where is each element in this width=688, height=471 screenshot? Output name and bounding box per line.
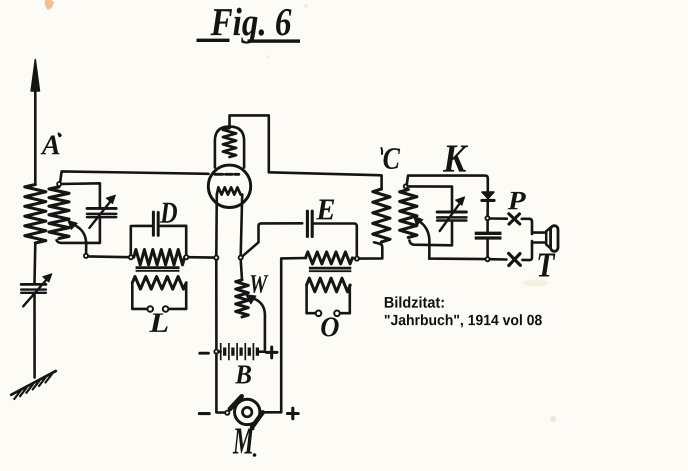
label M: [233, 429, 257, 457]
wire L to filament junction: [188, 256, 214, 259]
wire filament right to W: [241, 260, 242, 280]
blocking capacitor: [475, 233, 502, 238]
wire to capacitor D left: [131, 226, 152, 255]
terminal O right: [334, 311, 340, 317]
tube bulb circle: [208, 165, 250, 207]
wire cap to ground: [33, 295, 36, 378]
wire E right: [314, 224, 357, 257]
tube anode zigzag: [223, 128, 236, 157]
node capacitor bottom: [486, 257, 490, 261]
transformer O secondary: [307, 278, 351, 292]
motor brush left: [230, 396, 242, 409]
node diode bottom: [485, 216, 489, 220]
coil antenna secondary: [49, 187, 69, 239]
paper smudge orange top-left: [45, 0, 54, 10]
diode detector: [482, 192, 494, 216]
tube grid dashes: [215, 173, 239, 176]
label P: [508, 192, 526, 209]
title Fig. 6: [197, 8, 301, 44]
wire detector bottom line: [429, 257, 485, 259]
label K: [443, 146, 468, 172]
motor plus sign: [288, 408, 299, 419]
wire motor right: [263, 258, 306, 412]
wire P line: [490, 219, 532, 232]
label E: [316, 200, 334, 220]
tap arrow on secondary coil: [68, 221, 86, 254]
wire battery left terminal: [219, 350, 221, 353]
wire anode top: [230, 115, 382, 189]
telephone T earpad: [551, 226, 558, 252]
node secondary top: [57, 182, 61, 186]
switch X P: [509, 214, 520, 224]
coil K: [400, 190, 417, 238]
transformer O primary: [306, 252, 353, 264]
tube U1 envelope capsule: [215, 127, 244, 168]
wire coil top to variable capacitor top: [61, 183, 100, 207]
antenna A: [31, 60, 39, 185]
battery B cells: [221, 343, 258, 360]
wire variable capacitor bottom to K bottom: [409, 222, 452, 246]
label C: [382, 148, 401, 169]
wire battery left: [215, 260, 218, 349]
filament leg left: [215, 195, 218, 256]
variable capacitor (detector tuning): [437, 197, 466, 231]
terminal L right: [163, 306, 169, 312]
wire junction to C coil bottom: [359, 242, 382, 258]
telephone T stem: [532, 231, 546, 245]
node battery minus: [214, 350, 218, 354]
transformer L secondary: [132, 277, 186, 290]
motor M outer: [235, 399, 260, 424]
battery plus sign: [266, 347, 277, 358]
capacitor D: [153, 212, 158, 235]
wire variable capacitor bottom to coil bottom: [57, 218, 100, 243]
transformer L core: [136, 268, 180, 271]
ground: [11, 371, 56, 399]
coil C: [373, 189, 390, 242]
node filament left: [214, 256, 218, 260]
label B: [235, 366, 251, 384]
battery minus sign: [200, 352, 209, 355]
tap arrow on K coil: [414, 216, 430, 258]
wire battery plus to wiper: [257, 350, 265, 353]
wire capacitor D right: [160, 226, 186, 255]
switch X bottom: [509, 253, 521, 265]
label L: [149, 314, 168, 332]
wire L secondary legs: [132, 283, 186, 309]
wire O secondary legs: [307, 285, 350, 313]
wire K top to variable capacitor: [408, 186, 452, 210]
wire capacitor verticals: [486, 220, 489, 257]
wiper arrow W: [246, 295, 265, 350]
transformer L primary: [134, 250, 185, 265]
node L left: [129, 255, 133, 259]
capacitor E: [307, 211, 312, 236]
node tap junction: [84, 254, 88, 258]
wire primary bottom to cap: [33, 243, 36, 283]
telephone T neck: [546, 228, 550, 249]
label T: [538, 254, 555, 277]
variable capacitor (antenna series): [21, 274, 52, 307]
wire grid (coil top to tube): [60, 171, 208, 182]
label D: [160, 203, 177, 223]
transformer O core: [309, 268, 351, 271]
node filament right: [239, 256, 243, 260]
wire battery minus down to motor: [216, 354, 225, 413]
terminal O left: [316, 311, 322, 317]
wire bottom line to T: [490, 245, 532, 261]
filament leg right: [241, 195, 243, 256]
node L right: [184, 255, 188, 259]
motor terminal circle: [225, 411, 229, 415]
motor M inner: [243, 407, 252, 416]
rheostat W: [236, 280, 249, 317]
wire O primary right lead: [352, 256, 355, 259]
citation text: [385, 296, 542, 327]
wire tap junction to L: [88, 255, 129, 258]
label O: [321, 317, 339, 336]
variable capacitor (secondary tuning): [87, 195, 116, 228]
label W: [251, 275, 269, 293]
node K top: [404, 184, 408, 188]
tube filament zigzag: [217, 187, 242, 194]
wire K top to detector line: [407, 176, 488, 192]
coil antenna primary: [25, 185, 46, 244]
terminal L left: [147, 306, 153, 312]
motor brush right: [252, 412, 263, 427]
label A: [41, 132, 62, 154]
node O right junction: [355, 257, 359, 261]
wire E from filament node: [243, 223, 303, 256]
motor minus sign: [199, 412, 209, 415]
